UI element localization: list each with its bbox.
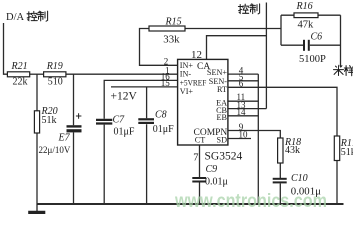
IC internal pin labels <box>180 61 228 145</box>
svg-text:IN-: IN- <box>180 70 192 79</box>
wire R17 bottom to rail <box>336 161 338 205</box>
wire pin6 RT to R17 <box>228 87 337 136</box>
svg-text:7: 7 <box>193 153 198 164</box>
svg-text:51k: 51k <box>341 147 353 158</box>
svg-text:47k: 47k <box>298 20 315 31</box>
wire +12V rail to pin15 <box>111 86 178 88</box>
wire pin12 CA <box>207 36 267 60</box>
svg-text:R15: R15 <box>165 17 182 28</box>
capacitor C9 <box>192 164 228 187</box>
wire C6 branch <box>281 44 341 46</box>
pin numbers <box>161 57 248 140</box>
wire R20 bottom to rail <box>36 133 38 204</box>
resistor R21 <box>7 61 29 88</box>
capacitor C6 <box>299 32 326 65</box>
svg-text:VI+: VI+ <box>180 87 194 96</box>
capacitor E7 electrolytic <box>39 113 82 155</box>
svg-text:01μF: 01μF <box>114 127 135 138</box>
label kongzhi control top <box>238 4 259 14</box>
capacitor C7 <box>96 115 135 138</box>
wire R21-R19 node <box>30 73 44 75</box>
wire C10 to rail <box>279 184 281 205</box>
wire C9 to rail <box>199 182 201 204</box>
svg-text:15: 15 <box>161 78 171 88</box>
wire pin13 CB <box>228 108 267 110</box>
svg-text:SG3524: SG3524 <box>205 151 243 163</box>
resistor R20 <box>34 106 57 133</box>
svg-text:6: 6 <box>239 79 244 89</box>
label caiyang sample <box>334 65 353 75</box>
capacitor C8 <box>138 110 174 136</box>
wire R19 to IC pin1 <box>66 73 178 75</box>
wire R18 to C10 <box>279 163 281 178</box>
wire C8 branch <box>146 87 148 204</box>
svg-text:CT: CT <box>195 135 205 144</box>
svg-text:01μF: 01μF <box>153 124 174 135</box>
svg-text:SEN+: SEN+ <box>207 68 227 77</box>
node D/A input wire <box>4 23 8 74</box>
wire pin10 SD stub <box>228 138 251 140</box>
svg-text:12: 12 <box>191 49 202 61</box>
svg-text:C7: C7 <box>113 115 126 126</box>
svg-text:IN+: IN+ <box>180 61 194 70</box>
svg-text:51k: 51k <box>42 115 57 126</box>
svg-text:10: 10 <box>239 130 249 140</box>
svg-text:C6: C6 <box>311 32 323 43</box>
svg-text:510: 510 <box>48 77 63 88</box>
ground <box>28 204 45 212</box>
resistor R16 <box>294 1 318 31</box>
wire R16 C6 right bracket to sample <box>340 15 342 67</box>
svg-text:EB: EB <box>217 113 228 122</box>
svg-text:33k: 33k <box>163 33 180 45</box>
wire node junction down to R20 <box>36 74 38 111</box>
wire pin14 EB <box>228 115 258 117</box>
op-amp U1 SG3524 IC body <box>178 59 228 145</box>
resistor R17 <box>334 136 353 161</box>
wire E7 branch <box>73 74 75 204</box>
wire R15 left to pin2 <box>140 29 178 66</box>
wire pin5 SEN- <box>228 80 258 82</box>
svg-text:R16: R16 <box>296 1 313 12</box>
svg-text:C8: C8 <box>155 110 167 121</box>
svg-text:D/A: D/A <box>6 12 25 23</box>
wire R16 top <box>281 14 341 16</box>
label D/A kongzhi hanzi <box>27 11 48 21</box>
ground rail <box>37 203 344 205</box>
svg-text:C10: C10 <box>291 173 308 184</box>
wire R15 right to R16 bracket <box>185 28 281 30</box>
wire R16 C6 left bracket <box>280 15 282 45</box>
capacitor C10 <box>273 173 321 197</box>
resistor R18 <box>278 137 302 163</box>
svg-text:www.cntronics.com: www.cntronics.com <box>174 190 327 212</box>
wire C7 bottom to rail <box>103 125 105 204</box>
svg-text:5100P: 5100P <box>299 54 326 65</box>
wire ground line vertical A <box>257 74 259 204</box>
wire pin11 EA <box>228 100 258 102</box>
svg-text:0.01μ: 0.01μ <box>205 176 228 187</box>
svg-text:14: 14 <box>237 107 247 117</box>
svg-text:22k: 22k <box>13 77 28 88</box>
resistor R15 <box>149 17 185 46</box>
svg-text:R19: R19 <box>46 61 63 72</box>
svg-text:RT: RT <box>217 85 227 94</box>
svg-text:E7: E7 <box>58 133 71 144</box>
wire pin7 CT to C9 <box>199 145 201 177</box>
wire pin16 +5VREF to C7 <box>104 80 177 118</box>
svg-text:SD: SD <box>217 135 228 144</box>
svg-text:22μ/10V: 22μ/10V <box>39 145 71 155</box>
svg-text:C9: C9 <box>206 164 218 175</box>
wire pin4 SEN+ <box>228 73 258 75</box>
wire pin9 COMP to R18 <box>228 131 280 139</box>
svg-text:+12V: +12V <box>111 91 138 103</box>
svg-text:R21: R21 <box>11 61 28 72</box>
resistor R19 <box>44 61 66 88</box>
svg-text:43k: 43k <box>285 145 300 156</box>
wire control line vertical <box>265 3 267 109</box>
